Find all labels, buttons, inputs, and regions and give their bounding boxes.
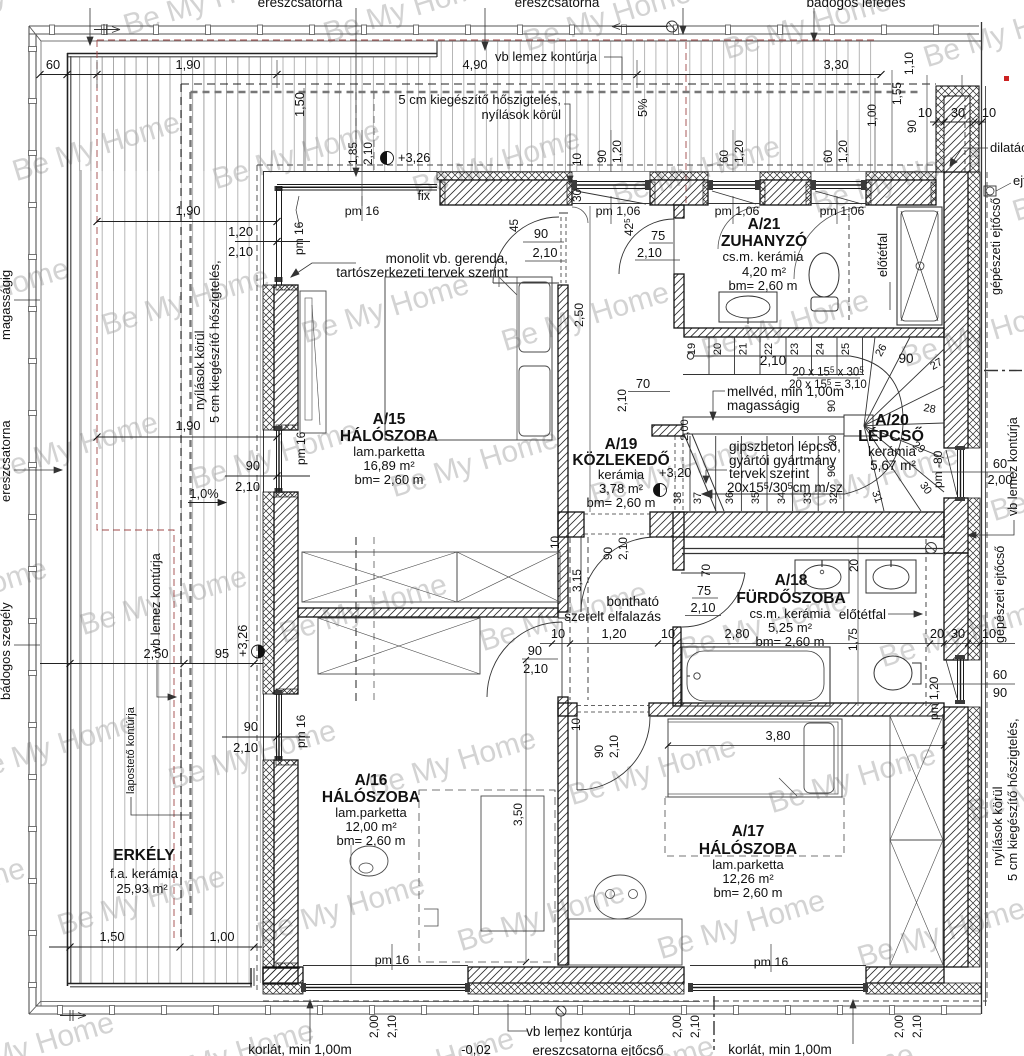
svg-text:90: 90 — [905, 119, 919, 133]
west exterior wall — [274, 285, 298, 430]
svg-text:A/20: A/20 — [875, 412, 909, 429]
svg-text:+3,20: +3,20 — [659, 465, 691, 480]
dim 90 2,10 A16 west window — [222, 736, 310, 738]
balcony hatch — [74, 57, 263, 983]
svg-text:25,93 m²: 25,93 m² — [116, 881, 168, 896]
svg-text:gépészeti ejtőcső: gépészeti ejtőcső — [989, 198, 1003, 295]
svg-text:30: 30 — [570, 188, 584, 202]
svg-text:60: 60 — [717, 149, 731, 163]
fix corner window north — [277, 184, 437, 186]
stair flight risers upper — [708, 337, 710, 375]
svg-text:1,00: 1,00 — [865, 104, 879, 127]
sw corner block — [263, 968, 298, 984]
A17 3,80 dim — [668, 745, 944, 747]
svg-text:A/16: A/16 — [355, 772, 388, 789]
lapostetc contour dashed across A16 — [355, 92, 357, 170]
svg-text:25: 25 — [840, 343, 852, 355]
svg-text:pm 16: pm 16 — [292, 221, 306, 255]
svg-text:A/21: A/21 — [748, 216, 781, 233]
top dimension chain — [40, 74, 881, 76]
svg-text:2,10: 2,10 — [910, 1015, 924, 1038]
svg-text:nyílások körül: nyílások körül — [482, 107, 562, 122]
bed A17 — [668, 719, 842, 797]
svg-text:mellvéd, min 1,00m: mellvéd, min 1,00m — [727, 384, 844, 399]
window glazing x 572-650 — [572, 181, 650, 183]
carpet dashed A17 — [665, 797, 844, 856]
ne corner column with dilatation — [936, 86, 979, 172]
window opening arcs top wall — [572, 207, 588, 223]
east window stairs pm-80 — [957, 448, 959, 498]
svg-text:60: 60 — [821, 149, 835, 163]
window glazing x 811-866 — [811, 181, 866, 183]
svg-text:90: 90 — [592, 744, 606, 758]
svg-text:2,10: 2,10 — [233, 740, 258, 755]
svg-text:10: 10 — [551, 626, 565, 641]
svg-text:70: 70 — [699, 563, 713, 577]
svg-text:ereszcsatorna ejtőcső: ereszcsatorna ejtőcső — [532, 1043, 663, 1056]
stair parapet mellved — [683, 417, 864, 434]
svg-text:2,10: 2,10 — [691, 600, 716, 615]
svg-text:24: 24 — [815, 343, 827, 355]
svg-text:21: 21 — [738, 343, 750, 355]
corridor east opening dashed — [674, 436, 676, 512]
1,90 dim at A15 corner — [97, 221, 277, 223]
vb lemez kontur red dashed — [97, 40, 875, 940]
svg-text:ZUHANYZÓ: ZUHANYZÓ — [721, 232, 807, 250]
svg-text:1,50: 1,50 — [100, 929, 125, 944]
corridor east / A21 west wall — [674, 205, 684, 218]
svg-text:szerelt elfalazás: szerelt elfalazás — [564, 609, 661, 624]
svg-text:1,90: 1,90 — [176, 203, 201, 218]
svg-text:95: 95 — [215, 646, 229, 661]
svg-text:3,78 m²: 3,78 m² — [599, 481, 644, 496]
svg-text:bontható: bontható — [606, 594, 659, 609]
svg-text:37: 37 — [692, 492, 704, 504]
svg-text:90: 90 — [898, 351, 913, 366]
anteroom bottom door opening dashed — [577, 705, 649, 707]
svg-text:90: 90 — [595, 149, 609, 163]
svg-text:28: 28 — [922, 402, 936, 416]
gutter flow arrows — [94, 27, 120, 33]
balcony bottom edge — [67, 983, 252, 985]
svg-text:bm= 2,60 m: bm= 2,60 m — [713, 885, 782, 900]
svg-text:tartószerkezeti tervek szerint: tartószerkezeti tervek szerint — [336, 265, 508, 280]
svg-text:5 cm kiegészítő hőszigtelés,: 5 cm kiegészítő hőszigtelés, — [1005, 718, 1020, 881]
svg-text:LÉPCSŐ: LÉPCSŐ — [858, 426, 924, 445]
svg-text:90: 90 — [244, 719, 258, 734]
east window A18 pm120 — [957, 658, 959, 701]
red dot marker — [1004, 76, 1009, 81]
svg-text:kerámia: kerámia — [598, 467, 645, 482]
south window A17 — [690, 984, 866, 986]
svg-text:gipszbeton lépcső,: gipszbeton lépcső, — [729, 439, 841, 454]
dim 1,20 2,10 corner window — [235, 241, 310, 243]
svg-text:90: 90 — [534, 226, 548, 241]
5cm insulation dashed contour around building — [257, 165, 987, 1001]
svg-text:1,10: 1,10 — [902, 52, 916, 75]
svg-text:70: 70 — [636, 376, 650, 391]
vb lemez kontur black dashed — [181, 84, 936, 940]
svg-text:fix: fix — [418, 189, 431, 203]
svg-text:2,50: 2,50 — [572, 303, 586, 327]
door anteroom to A17 — [577, 717, 650, 790]
left vertical chain — [80, 170, 82, 983]
west window A15 — [276, 430, 278, 492]
section line right — [984, 370, 1022, 372]
svg-text:pm 1,06: pm 1,06 — [715, 204, 760, 218]
anteroom door dims left — [522, 658, 558, 660]
svg-text:4,20 m²: 4,20 m² — [742, 264, 787, 279]
svg-text:75: 75 — [651, 228, 665, 243]
svg-text:10: 10 — [918, 105, 932, 120]
svg-text:10: 10 — [982, 626, 996, 641]
interior partition A15-A16 east wall — [558, 285, 568, 612]
south exterior wall — [263, 967, 303, 983]
svg-text:5%: 5% — [635, 99, 650, 118]
roof hatch left band — [74, 57, 437, 171]
wall stub west of A15 window — [275, 186, 283, 761]
svg-text:5,25 m²: 5,25 m² — [768, 620, 813, 635]
desk A16 — [481, 796, 544, 931]
insulation grey dashed contour — [191, 92, 921, 920]
furring counter line A18 — [682, 548, 943, 550]
svg-text:lam.parketta: lam.parketta — [335, 805, 407, 820]
svg-text:2,10: 2,10 — [760, 353, 786, 368]
west window A16 — [276, 694, 278, 760]
2,50 and 95 dim balcony — [40, 663, 263, 665]
svg-text:1,0%: 1,0% — [189, 486, 218, 501]
toilet A18 — [874, 656, 912, 690]
svg-text:bádogos lefedés: bádogos lefedés — [806, 0, 905, 10]
anteroom removable partition dashed — [569, 537, 571, 700]
door A21 from corridor — [619, 219, 674, 274]
bathtub A18 — [682, 647, 830, 706]
dim 10 30 10 ne column — [930, 121, 986, 123]
door A18 from anteroom — [681, 572, 745, 574]
svg-text:bm= 2,60 m: bm= 2,60 m — [586, 495, 655, 510]
svg-text:pm 1,06: pm 1,06 — [596, 204, 641, 218]
svg-text:pm 1,20: pm 1,20 — [927, 676, 941, 720]
roof edge left — [67, 53, 69, 986]
svg-text:90: 90 — [826, 400, 838, 412]
svg-text:23: 23 — [789, 343, 801, 355]
svg-text:5 cm kiegészítő hőszigtelés,: 5 cm kiegészítő hőszigtelés, — [207, 260, 222, 423]
washbasin A18 left — [795, 560, 849, 593]
svg-text:90: 90 — [601, 546, 615, 560]
west wall corner window glazing — [276, 186, 278, 285]
svg-text:-0,02: -0,02 — [461, 1042, 491, 1056]
1,90 dim lower — [97, 436, 277, 438]
svg-text:5,67 m²: 5,67 m² — [870, 458, 916, 473]
svg-text:vb lemez kontúrja: vb lemez kontúrja — [149, 553, 163, 652]
svg-text:3,15: 3,15 — [570, 569, 584, 592]
svg-text:dilatáció: dilatáció — [990, 140, 1024, 155]
svg-text:ereszcsatorna: ereszcsatorna — [0, 420, 13, 502]
svg-text:nyílások körül: nyílások körül — [192, 330, 207, 410]
door A15 from corridor — [493, 217, 559, 283]
east exterior wall insulation strip — [968, 172, 980, 448]
section line bottom — [713, 996, 715, 1050]
svg-text:1,20: 1,20 — [836, 140, 850, 163]
dresser A17 south — [569, 919, 682, 965]
west exterior wall insulation strip — [263, 285, 274, 430]
chair A16 — [350, 846, 388, 876]
svg-text:ERKÉLY: ERKÉLY — [113, 847, 175, 864]
door corridor to anteroom — [581, 537, 656, 612]
svg-text:bm= 2,60 m: bm= 2,60 m — [354, 472, 423, 487]
svg-text:10: 10 — [569, 717, 583, 731]
building right edge line — [981, 22, 983, 1014]
stair break line — [684, 434, 716, 511]
anteroom top door opening dashed — [584, 513, 650, 515]
svg-text:16,89 m²: 16,89 m² — [363, 458, 415, 473]
svg-text:A/18: A/18 — [775, 572, 808, 589]
furring dashed A21 — [848, 207, 850, 322]
stair winder fan lines — [864, 337, 875, 426]
svg-text:20: 20 — [847, 558, 861, 572]
south exterior wall insulation strip — [263, 983, 303, 994]
svg-text:f.a. kerámia: f.a. kerámia — [110, 866, 179, 881]
svg-text:cs.m. kerámia: cs.m. kerámia — [723, 249, 805, 264]
svg-text:1,20: 1,20 — [610, 140, 624, 163]
svg-text:pm 16: pm 16 — [294, 431, 308, 465]
svg-text:cs.m. kerámia: cs.m. kerámia — [750, 606, 832, 621]
svg-text:2,00: 2,00 — [670, 1015, 684, 1038]
svg-text:pm 16: pm 16 — [294, 714, 308, 748]
svg-text:60: 60 — [993, 667, 1007, 682]
svg-text:38: 38 — [672, 492, 684, 504]
svg-text:2,10: 2,10 — [533, 245, 558, 260]
svg-text:HÁLÓSZOBA: HÁLÓSZOBA — [699, 840, 797, 858]
svg-text:3,80: 3,80 — [766, 728, 791, 743]
svg-text:1,75: 1,75 — [846, 628, 860, 651]
svg-text:tervek szerint: tervek szerint — [729, 466, 810, 481]
svg-text:magasságig: magasságig — [727, 398, 800, 413]
svg-text:4,90: 4,90 — [463, 57, 488, 72]
1,50 1,00 dim balcony bottom — [49, 946, 262, 948]
room divider wall A15-A16 — [298, 608, 558, 617]
svg-text:2,10: 2,10 — [607, 735, 621, 758]
eaves gutter frame bottom — [29, 1013, 981, 1015]
svg-text:FÜRDŐSZOBA: FÜRDŐSZOBA — [736, 589, 845, 607]
svg-text:60: 60 — [993, 456, 1007, 471]
svg-text:19: 19 — [686, 343, 698, 355]
corridor-A18 west wall lower — [673, 512, 684, 570]
svg-text:A/15: A/15 — [373, 411, 406, 428]
A21-stairs partition wall — [684, 328, 944, 337]
svg-text:2,00: 2,00 — [679, 419, 691, 440]
svg-text:+3,26: +3,26 — [398, 150, 430, 165]
svg-text:ereszcsatorna: ereszcsatorna — [258, 0, 343, 10]
svg-text:előtétfal: előtétfal — [876, 233, 890, 277]
wardrobe A15 south X — [302, 552, 457, 602]
wardrobe A16 X — [318, 618, 480, 674]
north exterior wall insulation strip — [437, 172, 572, 180]
wardrobe A17 east X — [890, 716, 943, 840]
svg-text:2,00: 2,00 — [892, 1015, 906, 1038]
svg-text:90: 90 — [993, 685, 1007, 700]
svg-text:2,10: 2,10 — [235, 479, 260, 494]
svg-text:3,30: 3,30 — [824, 57, 849, 72]
svg-text:A/19: A/19 — [605, 436, 638, 453]
slab edge lines at west windows — [263, 172, 265, 285]
svg-text:bm= 2,60 m: bm= 2,60 m — [728, 278, 797, 293]
corridor east wall stub — [652, 425, 684, 436]
south window A16 — [303, 984, 468, 986]
svg-text:vb lemez kontúrja: vb lemez kontúrja — [526, 1024, 632, 1039]
svg-text:2,10: 2,10 — [615, 389, 629, 412]
north exterior wall — [650, 180, 708, 205]
svg-text:10: 10 — [982, 105, 996, 120]
svg-text:30: 30 — [951, 105, 965, 120]
frame corner miters — [29, 26, 41, 41]
svg-text:20: 20 — [930, 626, 944, 641]
svg-text:30: 30 — [951, 626, 965, 641]
svg-text:3,50: 3,50 — [511, 803, 525, 826]
svg-text:2,10: 2,10 — [637, 245, 662, 260]
elotetfal dashed A18 — [925, 539, 927, 706]
svg-text:90: 90 — [528, 643, 542, 658]
svg-text:2,10: 2,10 — [361, 142, 375, 165]
A18 1,75 dim — [857, 535, 859, 706]
svg-text:1,20: 1,20 — [602, 626, 627, 641]
roof step edge — [436, 41, 438, 57]
east exterior wall — [944, 172, 968, 448]
eaves gutter frame left — [28, 26, 30, 1014]
svg-text:HÁLÓSZOBA: HÁLÓSZOBA — [340, 427, 438, 445]
svg-text:2,10: 2,10 — [385, 1015, 399, 1038]
svg-text:A/17: A/17 — [732, 823, 765, 840]
svg-text:45: 45 — [507, 218, 521, 232]
washbasin A21 — [719, 292, 777, 322]
dim 90 2,10 A15 west window — [225, 475, 310, 477]
svg-text:2,10: 2,10 — [688, 1015, 702, 1038]
armchair A17 — [594, 875, 646, 919]
svg-text:2,10: 2,10 — [616, 537, 630, 560]
svg-text:ejtő: ejtő — [1013, 173, 1024, 188]
stair flight risers lower — [689, 436, 691, 511]
svg-text:1,20: 1,20 — [732, 140, 746, 163]
corridor and stairs south wall — [558, 512, 584, 537]
svg-text:HÁLÓSZOBA: HÁLÓSZOBA — [322, 788, 420, 806]
svg-text:2,80: 2,80 — [725, 626, 750, 641]
svg-text:12,00 m²: 12,00 m² — [345, 819, 397, 834]
svg-text:vb lemez kontúrja: vb lemez kontúrja — [495, 49, 598, 64]
svg-text:10: 10 — [548, 535, 562, 549]
svg-text:ereszcsatorna: ereszcsatorna — [515, 0, 600, 10]
svg-text:monolit vb. gerenda,: monolit vb. gerenda, — [386, 251, 508, 266]
svg-text:lam.parketta: lam.parketta — [712, 857, 784, 872]
svg-text:1,00: 1,00 — [210, 929, 235, 944]
svg-text:pm -80: pm -80 — [931, 450, 945, 488]
svg-text:pm 1,06: pm 1,06 — [820, 204, 865, 218]
svg-text:bádogos szegély: bádogos szegély — [0, 602, 13, 700]
roof edge top-left — [67, 53, 437, 55]
svg-text:12,26 m²: 12,26 m² — [722, 871, 774, 886]
svg-text:1,50: 1,50 — [292, 92, 307, 117]
svg-text:lam.parketta: lam.parketta — [353, 444, 425, 459]
svg-text:60: 60 — [46, 57, 60, 72]
svg-text:nyílások körül: nyílások körül — [990, 786, 1005, 866]
svg-text:2,10: 2,10 — [523, 661, 548, 676]
closet A15 west — [300, 291, 326, 433]
svg-text:előtétfal: előtétfal — [839, 607, 886, 622]
dashed projection rect A16 — [419, 790, 555, 962]
svg-text:90: 90 — [246, 458, 260, 473]
svg-text:magasságig: magasságig — [0, 270, 13, 340]
svg-text:lapostető kontúrja: lapostető kontúrja — [125, 706, 137, 794]
svg-text:1,85: 1,85 — [346, 142, 360, 165]
svg-text:20 x 155 x 305: 20 x 155 x 305 — [792, 366, 864, 379]
A16 3,50 dim — [525, 660, 527, 962]
svg-text:korlát, min 1,00m: korlát, min 1,00m — [248, 1042, 352, 1056]
eaves gutter frame top — [29, 25, 979, 27]
dim line 10 120 10 2,80 20 30 10 — [540, 643, 1015, 645]
svg-text:korlát, min 1,00m: korlát, min 1,00m — [728, 1042, 832, 1056]
svg-text:1,90: 1,90 — [176, 57, 201, 72]
svg-text:10: 10 — [661, 626, 675, 641]
A17 north wall — [558, 703, 577, 716]
toilet A21 — [809, 253, 839, 297]
svg-text:vb lemez kontúrja: vb lemez kontúrja — [1006, 417, 1020, 516]
svg-text:20x155/305cm m/sz: 20x155/305cm m/sz — [727, 480, 843, 495]
svg-text:2,00: 2,00 — [367, 1015, 381, 1038]
svg-text:2,00: 2,00 — [988, 472, 1013, 487]
rc beam over opening (monolit vb gerenda) — [440, 180, 572, 205]
shower tray A21 — [897, 207, 942, 325]
svg-text:+3,26: +3,26 — [235, 625, 250, 657]
svg-text:kerámia: kerámia — [868, 444, 917, 459]
stair walk line with arrow — [687, 353, 693, 359]
svg-text:75: 75 — [697, 583, 711, 598]
svg-text:1,20: 1,20 — [228, 224, 253, 239]
bed A15 — [385, 277, 552, 440]
window glazing x 708-760 — [708, 181, 760, 183]
svg-text:10: 10 — [570, 152, 584, 166]
svg-text:5 cm kiegészítő hőszigtelés,: 5 cm kiegészítő hőszigtelés, — [398, 92, 561, 107]
svg-text:2,10: 2,10 — [228, 244, 253, 259]
door anteroom to A16 — [487, 622, 562, 697]
svg-text:1,90: 1,90 — [176, 418, 201, 433]
washbasin A18 right — [866, 560, 916, 593]
svg-text:20: 20 — [712, 343, 724, 355]
roof hatch right band — [437, 41, 881, 171]
